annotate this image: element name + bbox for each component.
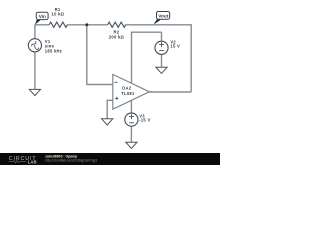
voltage flag Vout bbox=[153, 12, 169, 25]
wire V2 top lead bbox=[161, 32, 163, 41]
svg-text:TL081: TL081 bbox=[121, 91, 135, 96]
wire summing node down bbox=[86, 25, 88, 85]
svg-text:-15 V: -15 V bbox=[139, 118, 150, 123]
svg-text:http://circuitlab.com/c/32bgzn: http://circuitlab.com/c/32bgznzh7qy3 bbox=[45, 158, 97, 162]
svg-text:OA2: OA2 bbox=[122, 86, 132, 91]
resistor R1 bbox=[49, 22, 67, 27]
svg-text:10 kΩ: 10 kΩ bbox=[52, 11, 65, 16]
wire right vertical down bbox=[190, 24, 192, 92]
svg-text:Vin: Vin bbox=[39, 14, 46, 19]
svg-text:200 kΩ: 200 kΩ bbox=[109, 34, 125, 39]
ground below V1 bbox=[29, 89, 40, 95]
wire V- supply vertical bbox=[130, 101, 132, 114]
wire V3 bottom lead bbox=[130, 126, 132, 142]
svg-text:15 V: 15 V bbox=[170, 44, 180, 49]
resistor R2 bbox=[108, 22, 126, 27]
wire to inverting input bbox=[86, 84, 113, 86]
ground below V3 bbox=[126, 142, 137, 148]
op-amp OA2 TL081 bbox=[113, 74, 150, 109]
voltage flag Vin bbox=[35, 12, 48, 25]
watermark bar bbox=[0, 153, 220, 165]
voltage source V2 (+15V) bbox=[155, 41, 168, 54]
wire V1 top bbox=[34, 25, 36, 39]
wire V1 bottom to ground bbox=[34, 52, 36, 90]
ground below V2 bbox=[156, 67, 167, 73]
svg-text:Vout: Vout bbox=[158, 13, 169, 18]
junction node at R1/R2 bbox=[85, 23, 88, 26]
wire output horizontal bbox=[149, 91, 191, 93]
wire noninverting input jog bbox=[107, 100, 113, 119]
wire V2 bottom lead bbox=[161, 54, 163, 67]
wire V+ supply vertical bbox=[131, 32, 133, 83]
voltage source V3 (-15V) bbox=[125, 113, 138, 126]
CircuitLab logo bbox=[9, 156, 37, 165]
wire R1 to R2 bbox=[67, 24, 107, 26]
wire top from Vin corner to R1 bbox=[35, 24, 49, 26]
wire R2 to right corner bbox=[126, 24, 192, 26]
svg-text:LAB: LAB bbox=[28, 160, 37, 165]
voltage source V1 (sine) bbox=[28, 39, 41, 52]
svg-text:185 kHz: 185 kHz bbox=[45, 48, 62, 53]
ground at noninverting input bbox=[102, 119, 113, 125]
wire V+ rail horizontal bbox=[131, 31, 162, 33]
